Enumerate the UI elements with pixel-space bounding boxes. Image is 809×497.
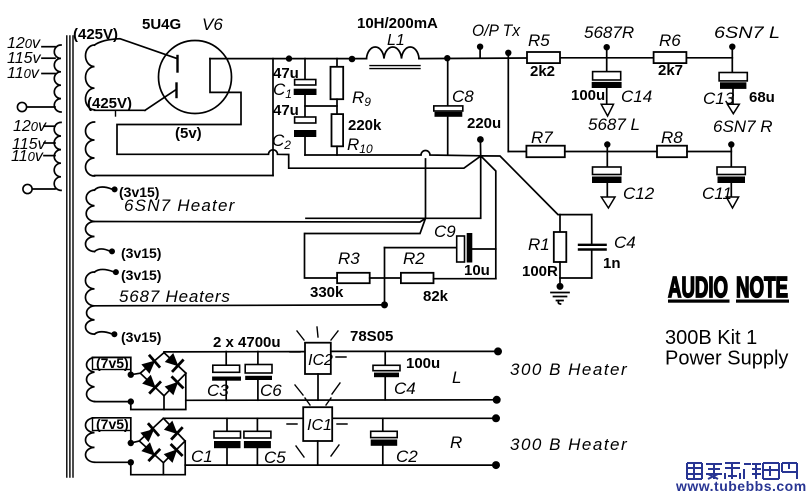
- svg-text:300B Kit 1: 300B Kit 1: [665, 327, 757, 349]
- svg-text:300 B Heater: 300 B Heater: [510, 435, 628, 454]
- svg-text:1n: 1n: [603, 255, 621, 272]
- svg-text:V6: V6: [202, 15, 223, 34]
- svg-text:R5: R5: [528, 31, 550, 50]
- svg-text:100R: 100R: [522, 263, 558, 280]
- svg-text:L1: L1: [387, 32, 405, 49]
- svg-text:330k: 330k: [310, 284, 344, 301]
- svg-text:2 x 4700u: 2 x 4700u: [213, 334, 281, 351]
- svg-text:82k: 82k: [423, 288, 449, 305]
- svg-text:6SN7 L: 6SN7 L: [714, 23, 780, 42]
- svg-text:220k: 220k: [348, 117, 382, 134]
- svg-text:(7v5): (7v5): [96, 355, 129, 371]
- svg-text:L: L: [452, 368, 461, 387]
- svg-text:(425V): (425V): [73, 26, 118, 43]
- svg-text:C8: C8: [452, 87, 474, 106]
- svg-text:5687R: 5687R: [584, 23, 634, 42]
- svg-text:300 B Heater: 300 B Heater: [510, 360, 628, 379]
- svg-text:R7: R7: [531, 128, 553, 147]
- svg-text:IC1: IC1: [307, 417, 332, 434]
- svg-text:C13: C13: [703, 89, 735, 108]
- svg-text:www.tubebbs.com: www.tubebbs.com: [675, 478, 807, 494]
- svg-text:220u: 220u: [467, 115, 501, 132]
- svg-text:5687 Heaters: 5687 Heaters: [119, 287, 231, 306]
- svg-text:C1: C1: [191, 447, 213, 466]
- svg-text:100u: 100u: [571, 87, 605, 104]
- svg-text:C6: C6: [260, 381, 282, 400]
- svg-text:(3v15): (3v15): [121, 267, 161, 283]
- svg-text:R3: R3: [338, 249, 360, 268]
- svg-text:(3v15): (3v15): [121, 245, 161, 261]
- svg-text:R1: R1: [528, 235, 550, 254]
- svg-text:2k2: 2k2: [530, 63, 555, 80]
- svg-text:(7v5): (7v5): [96, 416, 129, 432]
- svg-text:5U4G: 5U4G: [142, 16, 181, 33]
- svg-text:68u: 68u: [749, 89, 775, 106]
- svg-text:47u: 47u: [273, 102, 299, 119]
- svg-text:110v: 110v: [11, 148, 44, 165]
- svg-text:(3v15): (3v15): [121, 329, 161, 345]
- svg-text:R2: R2: [403, 249, 425, 268]
- svg-text:R: R: [450, 433, 462, 452]
- svg-text:C12: C12: [623, 184, 655, 203]
- svg-text:10u: 10u: [464, 262, 490, 279]
- svg-text:C3: C3: [207, 381, 229, 400]
- svg-text:2k7: 2k7: [658, 62, 683, 79]
- svg-text:C4: C4: [614, 233, 636, 252]
- svg-text:110v: 110v: [7, 65, 40, 82]
- svg-text:O/P Tx: O/P Tx: [472, 21, 520, 40]
- svg-text:6SN7 R: 6SN7 R: [713, 117, 773, 136]
- svg-text:R8: R8: [661, 128, 683, 147]
- svg-text:C9: C9: [434, 222, 456, 241]
- svg-text:78S05: 78S05: [350, 328, 393, 345]
- svg-text:C2: C2: [396, 447, 418, 466]
- svg-text:(425V): (425V): [87, 95, 132, 112]
- svg-text:C4: C4: [394, 379, 416, 398]
- svg-text:Power Supply: Power Supply: [665, 348, 788, 370]
- svg-text:NOTE: NOTE: [736, 272, 788, 304]
- svg-text:5687 L: 5687 L: [588, 115, 640, 134]
- svg-text:6SN7 Heater: 6SN7 Heater: [124, 196, 236, 215]
- svg-text:AUDIO: AUDIO: [668, 272, 728, 304]
- svg-text:R6: R6: [659, 31, 681, 50]
- svg-text:C5: C5: [264, 448, 286, 467]
- svg-text:IC2: IC2: [308, 352, 333, 369]
- svg-text:100u: 100u: [406, 355, 440, 372]
- svg-text:(5v): (5v): [175, 125, 202, 142]
- svg-text:C11: C11: [702, 184, 732, 203]
- svg-text:10H/200mA: 10H/200mA: [357, 15, 438, 32]
- svg-text:120v: 120v: [13, 118, 47, 135]
- svg-text:C14: C14: [621, 87, 652, 106]
